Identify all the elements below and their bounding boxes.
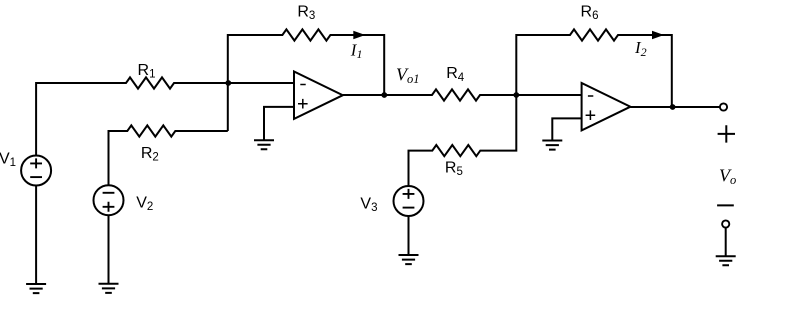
voltage source V3 — [394, 186, 424, 216]
wire V1 top vertical and R1 line to op-amp — [36, 77, 294, 155]
terminal output negative — [722, 220, 729, 227]
voltage source V1 — [21, 156, 51, 186]
ground below V2 — [99, 284, 119, 293]
wire feedback branch R3 — [228, 29, 384, 131]
wire feedback branch R6 — [516, 29, 672, 107]
ground below negative terminal — [716, 256, 736, 265]
node junction dot U2 output — [670, 104, 676, 110]
node Vo1 dot — [381, 92, 387, 98]
wire V1 bottom — [35, 186, 37, 285]
op-amp U1 — [294, 72, 343, 119]
node junction dot at inverting input — [225, 80, 231, 86]
wire V3 bottom — [408, 216, 410, 255]
wire node to op-amp U2 inverting input — [516, 94, 581, 96]
wire V2 bottom — [108, 215, 110, 284]
terminal output positive — [720, 103, 727, 110]
op-amp U2 — [582, 83, 631, 130]
wire R5 branch — [409, 95, 517, 186]
wire op-amp U1 non-inverting input — [264, 107, 294, 140]
current arrow I1 — [353, 31, 365, 40]
wire R2 line — [109, 125, 228, 185]
ground at U2 non-inverting input — [542, 141, 562, 150]
voltage source V2 — [94, 185, 124, 215]
ground below V3 — [399, 255, 419, 264]
current arrow I2 — [652, 31, 664, 40]
output minus sign — [717, 204, 734, 206]
wire negative terminal to ground — [725, 228, 727, 257]
wire op-amp U2 non-inverting input — [552, 118, 581, 140]
output plus sign — [718, 125, 735, 142]
ground at U1 non-inverting input — [254, 140, 274, 149]
node junction dot R4/R5/R6 — [513, 92, 519, 98]
wire U1 output through R4 to node — [343, 89, 517, 100]
ground below V1 — [26, 284, 46, 293]
wire U2 output to terminal — [630, 106, 719, 108]
